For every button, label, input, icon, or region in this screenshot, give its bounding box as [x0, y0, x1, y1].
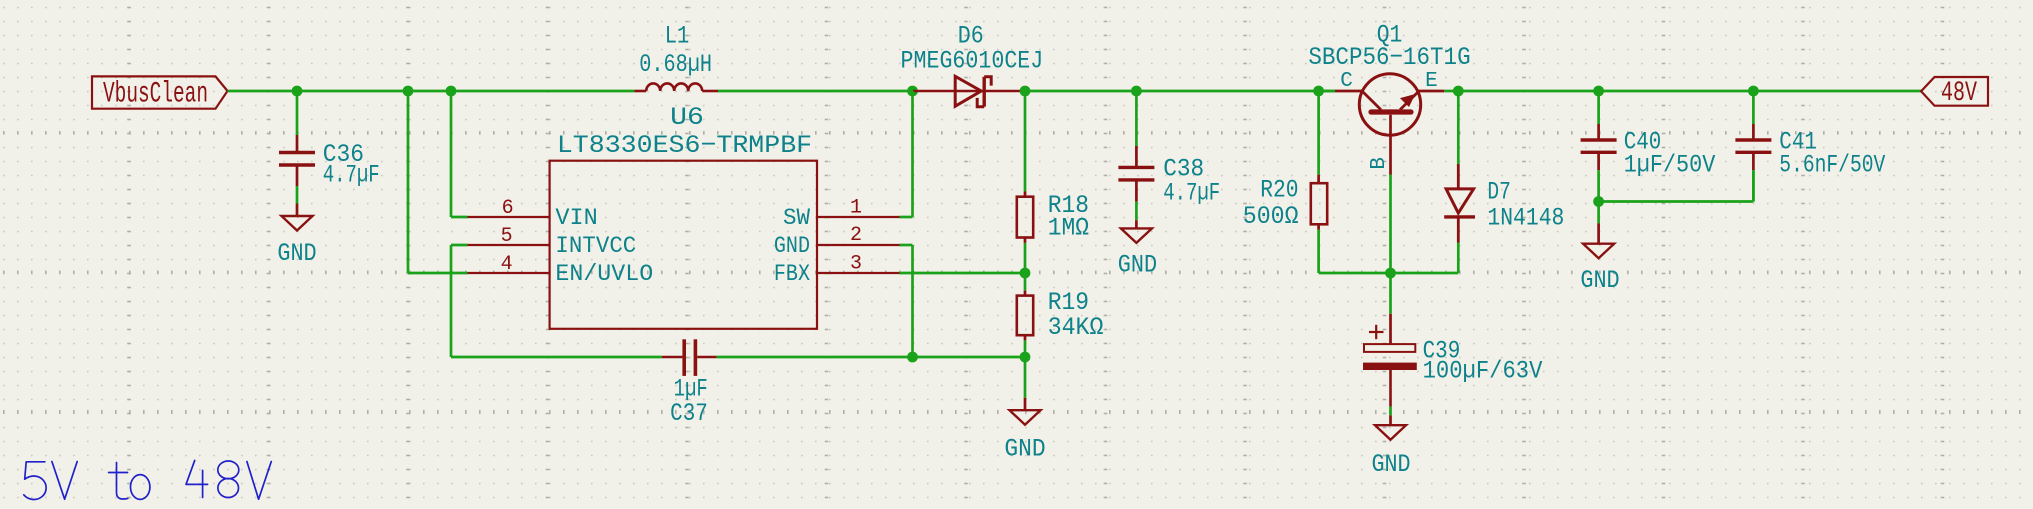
wire bus D6 to Q1: [1025, 90, 1335, 93]
ground below C38: [1135, 220, 1138, 228]
svg-text:INTVCC: INTVCC: [555, 233, 636, 259]
svg-text:LT8330ES6−TRMPBF: LT8330ES6−TRMPBF: [557, 131, 812, 160]
Q1 collector wire: [1319, 90, 1335, 93]
wire bus L1 to D6: [718, 90, 913, 93]
ground below C36: [296, 204, 299, 217]
Q1 emitter wire: [1400, 92, 1419, 110]
svg-text:U6: U6: [670, 103, 704, 132]
ground below R19: [1024, 398, 1027, 410]
svg-text:1MΩ: 1MΩ: [1048, 214, 1089, 243]
junction C37/GND pin: [907, 352, 918, 363]
Q1 base wire: [1389, 115, 1392, 175]
junction bus/VIN column: [446, 86, 457, 97]
resistor R20: [1317, 91, 1320, 175]
inductor L1: [634, 90, 646, 93]
junction bus/E: [1453, 86, 1464, 97]
junction C40 gnd node: [1593, 196, 1604, 207]
svg-text:EN/UVLO: EN/UVLO: [555, 261, 653, 287]
ground below C39: [1389, 415, 1392, 425]
svg-text:GND: GND: [1118, 251, 1157, 280]
wire to gnd U6: [1024, 357, 1027, 398]
capacitor C40: [1597, 91, 1600, 124]
svg-text:3: 3: [850, 253, 862, 276]
wire Q1 bottom rail: [1319, 272, 1459, 275]
svg-text:C: C: [1340, 70, 1353, 93]
svg-text:SBCP56−16T1G: SBCP56−16T1G: [1308, 43, 1470, 72]
svg-text:4.7µF: 4.7µF: [1163, 179, 1220, 208]
svg-text:B: B: [1368, 157, 1391, 170]
svg-text:0.68µH: 0.68µH: [639, 50, 712, 79]
junction bus/C38: [1131, 86, 1142, 97]
ground below C40: [1597, 223, 1600, 243]
junction C37 row right: [1020, 352, 1031, 363]
svg-text:R20: R20: [1260, 175, 1298, 204]
junction bus/C41: [1748, 86, 1759, 97]
wire SW to bus: [900, 216, 913, 219]
junction bus/SW column: [907, 86, 918, 97]
net label 48V: [1921, 77, 1988, 106]
IC U6 body: [550, 161, 817, 329]
svg-text:4.7µF: 4.7µF: [323, 161, 380, 190]
wire GND pin down: [900, 244, 913, 247]
svg-text:5: 5: [501, 225, 513, 248]
pin 1 SW: [817, 216, 900, 218]
wire main bus left: [228, 90, 635, 93]
svg-text:48V: 48V: [1941, 78, 1977, 109]
junction bus/R20: [1313, 86, 1324, 97]
svg-text:PMEG6010CEJ: PMEG6010CEJ: [901, 46, 1044, 75]
resistor R18: [1024, 91, 1027, 192]
svg-text:500Ω: 500Ω: [1243, 202, 1299, 231]
svg-text:100µF/63V: 100µF/63V: [1423, 356, 1543, 385]
capacitor C39: [1389, 273, 1392, 314]
wire INTVCC to C37 row: [451, 244, 468, 247]
svg-text:34KΩ: 34KΩ: [1048, 313, 1104, 342]
pin 4 EN/UVLO: [468, 272, 550, 274]
wire C40 C41 bottom: [1599, 200, 1754, 203]
capacitor C41: [1752, 91, 1755, 124]
capacitor C37: [662, 356, 683, 359]
junction bus/C40: [1593, 86, 1604, 97]
wire bus to VIN: [450, 91, 453, 217]
pin 3 FBX: [817, 272, 900, 274]
svg-text:L1: L1: [665, 21, 690, 50]
pin 5 INTVCC: [468, 244, 550, 246]
wire bus to EN/UVLO: [407, 91, 410, 273]
svg-text:VIN: VIN: [555, 205, 597, 231]
svg-text:GND: GND: [774, 233, 810, 259]
transistor Q1 circle: [1359, 74, 1420, 135]
C39 plus sign: [1369, 331, 1384, 333]
svg-text:6: 6: [502, 197, 514, 220]
resistor R19: [1024, 273, 1027, 291]
svg-text:1N4148: 1N4148: [1487, 204, 1564, 233]
svg-text:1: 1: [850, 197, 862, 220]
junction bus/EN column: [403, 86, 414, 97]
junction bus/R18 column: [1020, 86, 1031, 97]
wire C37 to gnd net: [717, 356, 1025, 359]
svg-text:GND: GND: [1580, 266, 1619, 295]
svg-text:D7: D7: [1487, 178, 1510, 207]
wire bus Q1 to output: [1458, 90, 1921, 93]
svg-text:GND: GND: [1371, 450, 1410, 479]
pin 2 GND: [817, 244, 900, 246]
diode D7: [1457, 91, 1460, 164]
junction rail/C39: [1385, 268, 1396, 279]
junction bus/C36: [292, 86, 303, 97]
capacitor C38: [1135, 91, 1138, 146]
Q1 base bar: [1371, 109, 1411, 114]
comment text 5V to 48V: [24, 460, 271, 499]
svg-text:FBX: FBX: [774, 261, 810, 287]
wire C40 node to gnd: [1597, 202, 1600, 224]
svg-text:SW: SW: [783, 205, 810, 231]
junction FBX node: [1020, 268, 1031, 279]
svg-text:4: 4: [501, 253, 513, 276]
svg-text:GND: GND: [277, 239, 316, 268]
capacitor C36: [279, 151, 315, 154]
capacitor C36 leads: [296, 91, 299, 135]
svg-text:E: E: [1425, 70, 1438, 93]
svg-text:GND: GND: [1004, 434, 1045, 463]
svg-text:2: 2: [850, 224, 862, 247]
svg-text:VbusClean: VbusClean: [103, 78, 208, 112]
svg-text:C37: C37: [670, 399, 708, 428]
svg-text:5.6nF/50V: 5.6nF/50V: [1779, 151, 1885, 180]
wire FBX to divider: [900, 272, 1026, 275]
net label VbusClean: [92, 76, 228, 108]
svg-text:1µF/50V: 1µF/50V: [1624, 151, 1716, 180]
diode D6: [913, 90, 1025, 93]
pin 6 VIN: [468, 216, 550, 218]
